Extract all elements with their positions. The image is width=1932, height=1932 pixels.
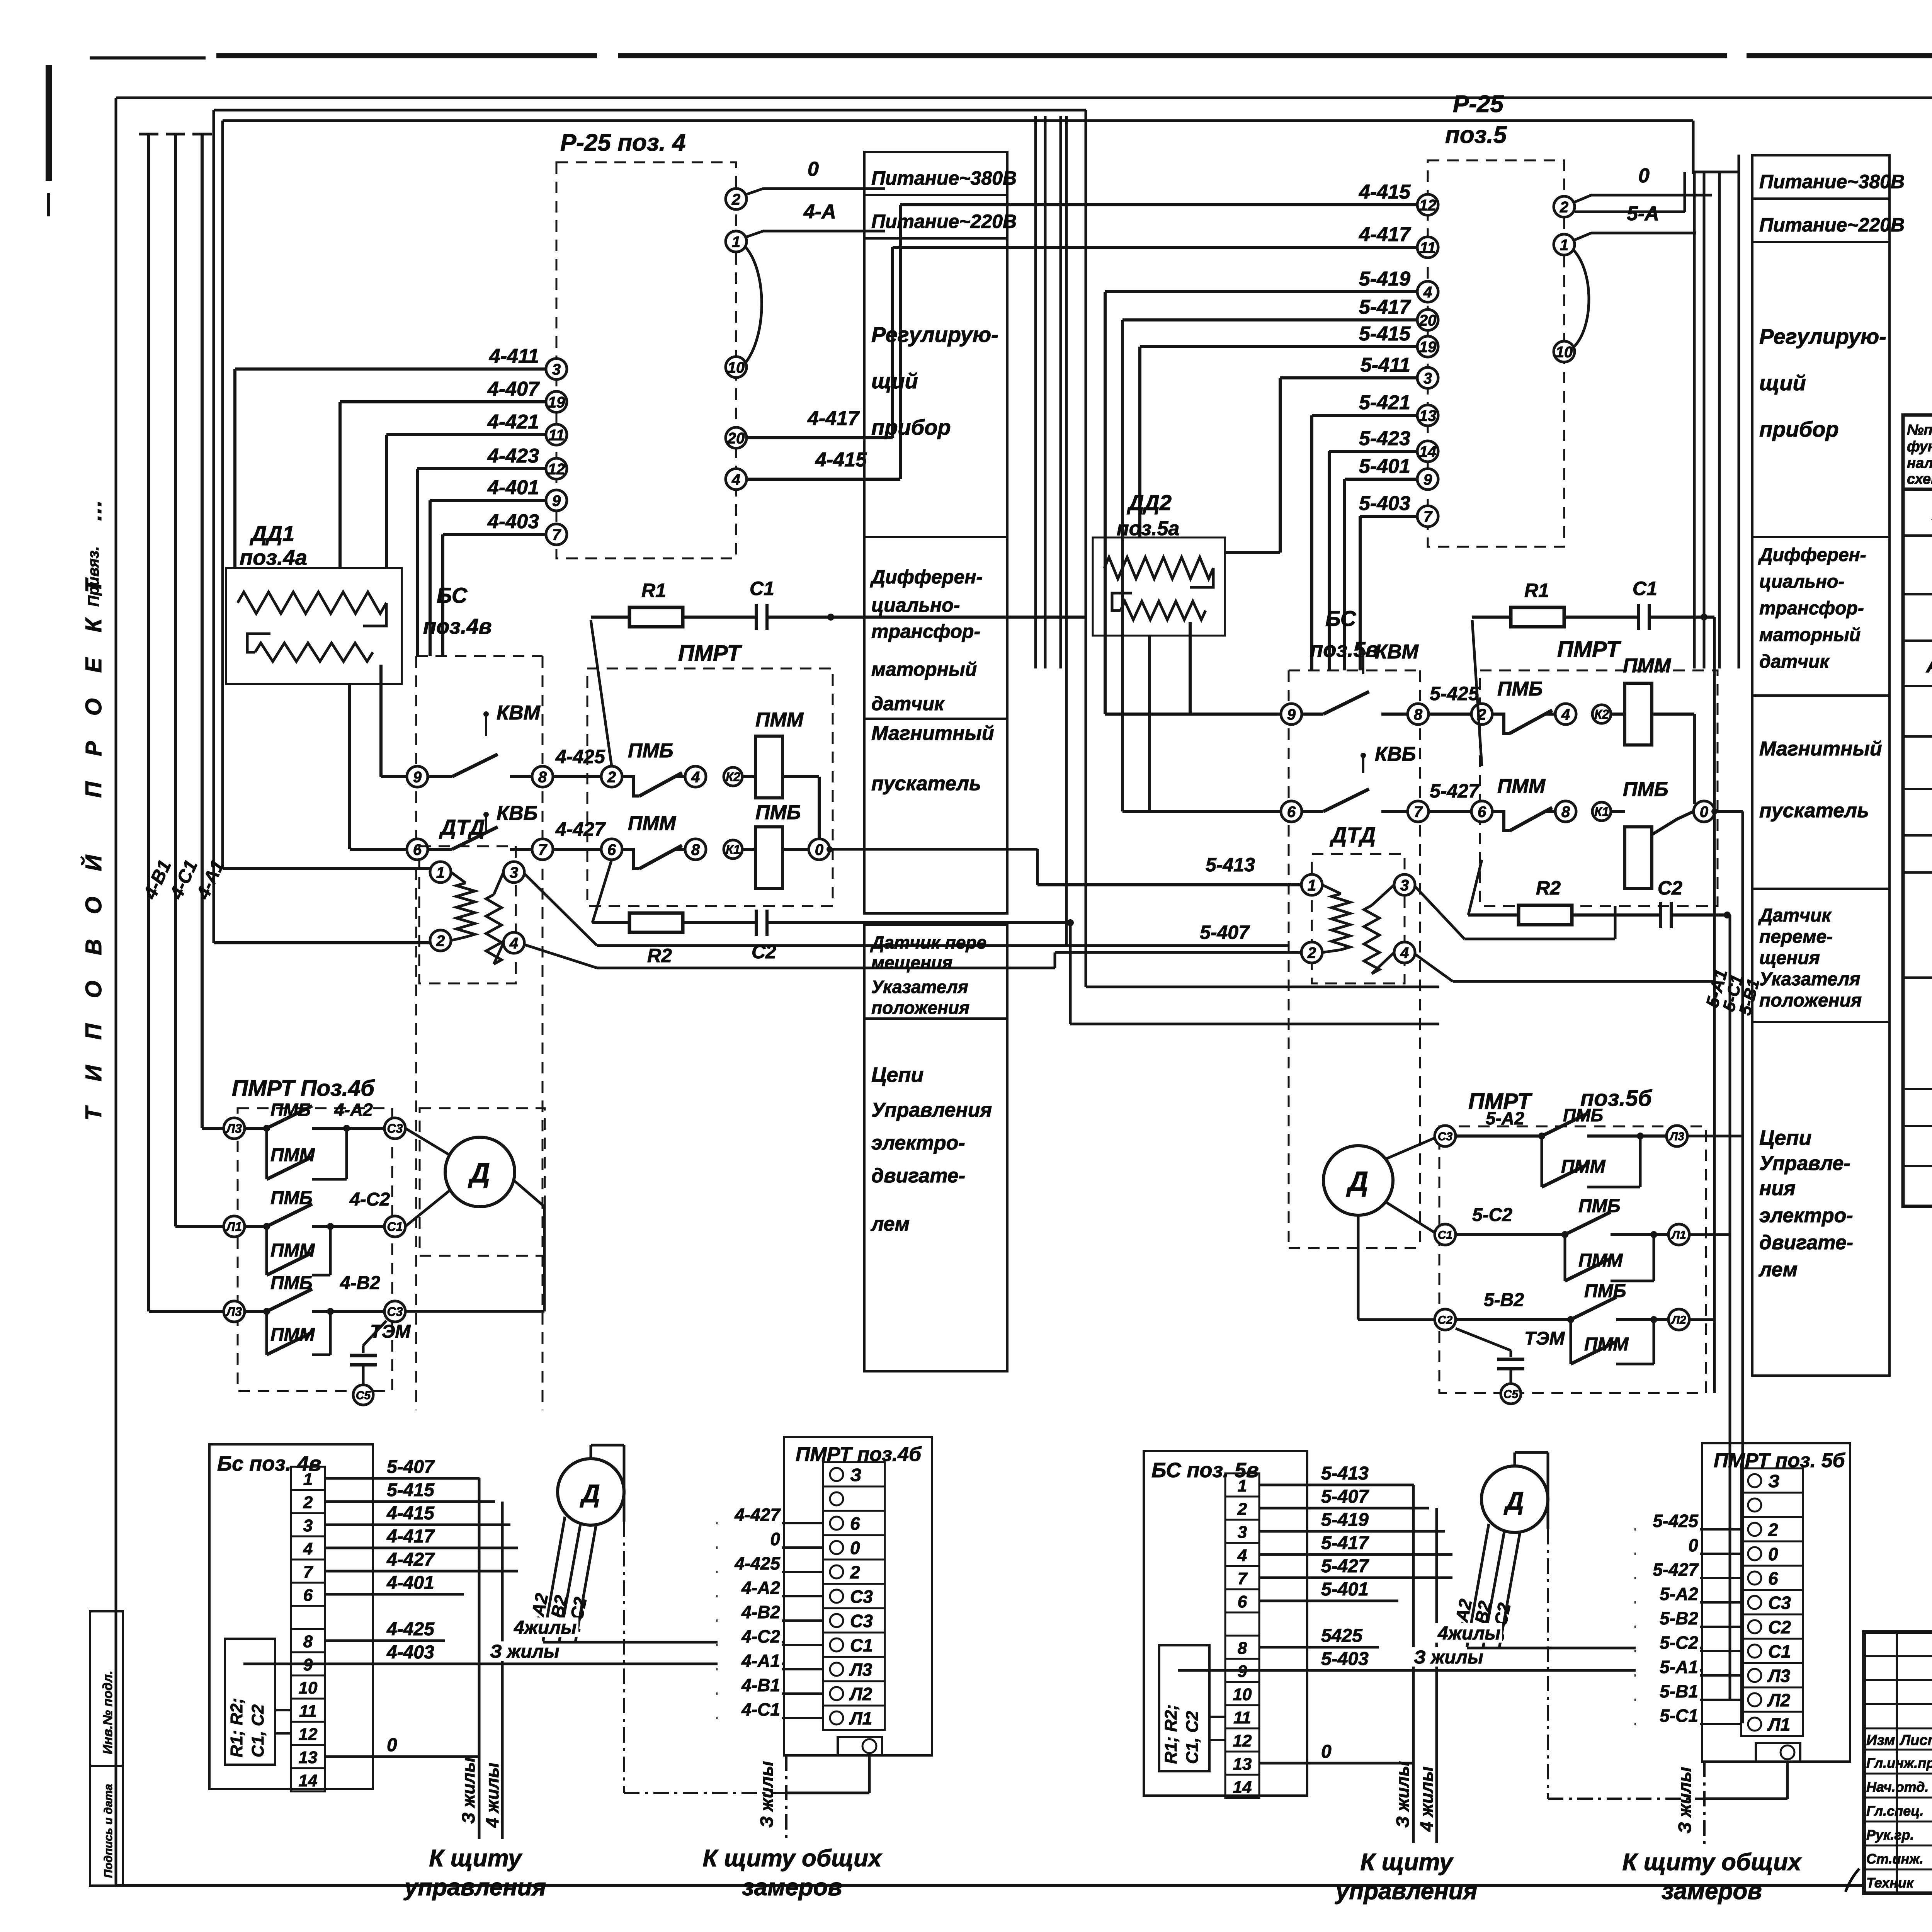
label 4zhily ch5 [1435, 1623, 1502, 1643]
pin 1 DTD ch5 [1301, 874, 1322, 895]
svg-text:З жилы: З жилы [490, 1641, 560, 1662]
strip PMRT-5b left wire labels [1634, 1528, 1741, 1531]
svg-text:5-401: 5-401 [1359, 455, 1410, 478]
resistive element DD2 lower [1121, 601, 1206, 620]
svg-text:2: 2 [436, 932, 445, 949]
svg-text:4-417: 4-417 [386, 1526, 435, 1547]
brake TEM ch4 [363, 1321, 386, 1345]
wire L2 to bus [1689, 1318, 1714, 1321]
svg-text:5-413: 5-413 [1206, 854, 1255, 876]
svg-text:ДД2: ДД2 [1127, 490, 1172, 515]
svg-text:4: 4 [303, 1539, 313, 1558]
pin 6 BS-5 [1281, 801, 1302, 822]
title block grid left [1896, 1632, 1898, 1893]
strip PMRT-5b tail wire [1786, 1762, 1789, 1799]
node С1 row2 ch4 [384, 1216, 405, 1237]
svg-text:Указателя: Указателя [1759, 969, 1861, 990]
wire bus corner B to ch5 [1692, 121, 1695, 174]
contact KVB blade ch5 [1323, 789, 1369, 811]
contact PMB row2 ch5 [1565, 1212, 1611, 1235]
svg-text:ПММ: ПММ [755, 709, 804, 731]
svg-text:Питание~380В: Питание~380В [871, 167, 1017, 189]
svg-text:7: 7 [1238, 1569, 1248, 1588]
svg-text:Гл.спец.: Гл.спец. [1866, 1803, 1923, 1819]
svg-text:8: 8 [303, 1632, 313, 1651]
svg-text:К2: К2 [726, 770, 740, 784]
wire vertical x2770 [1069, 923, 1072, 1024]
contact KVM blade [452, 754, 498, 777]
labels column ch5 [1752, 155, 1889, 199]
wire 4-415 riser [899, 205, 902, 479]
coil terminal K2 ch5 [1592, 705, 1611, 723]
svg-text:датчик: датчик [1759, 651, 1830, 672]
dash-dot cable ch5 [1547, 1529, 1549, 1799]
wire 5-427 [1429, 810, 1471, 813]
svg-text:4-407: 4-407 [487, 378, 540, 400]
sensor DD2 pos.5a box [1093, 537, 1225, 636]
pin 4 DTD ch5 [1394, 942, 1415, 963]
svg-text:4-В2: 4-В2 [741, 1602, 780, 1622]
limit switch block BS pos.5v dashed box [1289, 670, 1420, 672]
limit switch KVM [483, 711, 489, 717]
svg-text:С3: С3 [850, 1611, 873, 1631]
svg-text:управления: управления [403, 1874, 546, 1901]
wire to 0 ch5 [1693, 714, 1696, 804]
wire pin4 run [597, 967, 1055, 969]
wire left vertical A (to DTD-4 pin 2) [213, 110, 215, 943]
svg-text:положения: положения [1759, 990, 1862, 1011]
regulator P-25 pos.4 dashed box [556, 162, 736, 558]
svg-text:4-С2: 4-С2 [349, 1189, 390, 1210]
svg-text:лем: лем [870, 1213, 910, 1235]
long wire 5-403 run [1178, 1669, 1702, 1672]
svg-text:Управле-: Управле- [1759, 1152, 1850, 1175]
svg-text:7: 7 [1423, 508, 1433, 525]
svg-text:4-423: 4-423 [487, 445, 539, 467]
svg-text:КВБ: КВБ [1375, 743, 1416, 765]
svg-text:5-417: 5-417 [1321, 1533, 1369, 1553]
svg-text:прибор: прибор [871, 415, 951, 439]
svg-text:3: 3 [1400, 877, 1409, 894]
svg-text:6: 6 [1768, 1568, 1778, 1588]
pin 1 of P-25 pos.4, wire 4-А [726, 231, 747, 252]
svg-text:4-427: 4-427 [386, 1549, 435, 1570]
node 0 PMRT ch5 [1694, 801, 1714, 822]
svg-text:ПМБ: ПМБ [1584, 1281, 1626, 1301]
wire bus vertical ch5 top c [1718, 172, 1721, 668]
svg-text:замеров: замеров [742, 1874, 842, 1901]
svg-text:R2: R2 [1536, 877, 1561, 899]
wire 4-B1 to L2 [149, 1310, 224, 1313]
svg-text:Привяз.: Привяз. [85, 546, 102, 607]
wire 5-411 [1280, 376, 1417, 379]
svg-text:ПММ: ПММ [1584, 1334, 1629, 1355]
pin 7 BS-5 [1408, 801, 1429, 822]
svg-text:5425: 5425 [1321, 1626, 1363, 1646]
wire 0-row extension [830, 848, 1037, 851]
svg-text:6: 6 [850, 1514, 860, 1534]
wire long vertical C1 net ch5 [1713, 617, 1716, 1393]
svg-text:Изм: Изм [1866, 1732, 1895, 1748]
svg-text:поз.4в: поз.4в [423, 614, 492, 638]
motor cable ch4 [543, 1517, 565, 1642]
svg-text:Указателя: Указателя [871, 977, 968, 997]
svg-text:4: 4 [509, 935, 518, 952]
svg-text:С1, С2: С1, С2 [248, 1704, 267, 1757]
svg-text:10: 10 [728, 359, 745, 376]
svg-text:Цепи: Цепи [871, 1063, 923, 1087]
strip PMRT-4b tail wire [868, 1755, 871, 1793]
wire C3 row3 to motor [405, 1310, 544, 1313]
svg-text:Питание~380В: Питание~380В [1759, 171, 1905, 192]
svg-text:5-С2: 5-С2 [1472, 1205, 1512, 1225]
wire 4-421 [386, 433, 546, 436]
svg-text:Лист: Лист [1899, 1732, 1932, 1748]
svg-text:Д: Д [468, 1158, 490, 1189]
wire 5-401 [1345, 478, 1417, 481]
pin 10 of P-25 pos.4 [726, 357, 747, 378]
resistive element DTD ch4 right [486, 895, 502, 964]
svg-text:4: 4 [691, 769, 700, 786]
node С1 ch5 [1435, 1224, 1456, 1245]
svg-text:5-411: 5-411 [1361, 354, 1410, 376]
pin 3 DTD [503, 862, 524, 883]
svg-text:4: 4 [1400, 944, 1409, 961]
node С3 row1 ch4 [384, 1118, 405, 1139]
pin 10 of P-25 pos.5 [1554, 341, 1575, 362]
wire diag pin6 to R2 [592, 860, 612, 923]
svg-text:пускатель: пускатель [871, 772, 981, 795]
svg-text:К2: К2 [1594, 707, 1609, 721]
svg-text:ПМБ: ПМБ [1578, 1196, 1621, 1216]
motor cable ch5 [1467, 1524, 1489, 1648]
svg-text:6: 6 [413, 841, 422, 858]
svg-text:1: 1 [1308, 877, 1316, 894]
pin 8 PMRT [685, 839, 706, 860]
resistive element DD2 upper [1104, 557, 1213, 579]
svg-text:С3: С3 [387, 1305, 403, 1319]
wire DTD pin4 out [525, 945, 597, 968]
wire bus vertical ch5 top a [1693, 172, 1696, 668]
node С5 ch5 [1501, 1384, 1521, 1404]
svg-text:R2: R2 [647, 945, 672, 966]
wire 5-417 [1122, 318, 1417, 321]
svg-text:ПМБ: ПМБ [1623, 778, 1668, 801]
limit switch KVM ch5 [1361, 650, 1366, 656]
strip BS-4v R C box wires [275, 1663, 291, 1665]
svg-text:С1: С1 [750, 578, 774, 599]
wire 4-423 [417, 467, 546, 470]
motor enclosure dashed box ch4 [420, 1108, 545, 1256]
svg-text:5-В1: 5-В1 [1660, 1681, 1698, 1701]
svg-text:2: 2 [303, 1493, 313, 1512]
svg-text:трансфор-: трансфор- [871, 621, 980, 642]
pin 4 PMRT [685, 766, 706, 787]
svg-text:4-425: 4-425 [734, 1553, 781, 1573]
wire 4-A1 to L3 [202, 1127, 224, 1130]
wire DD1 tail to BS (6) [348, 684, 351, 849]
svg-text:Магнитный: Магнитный [1759, 738, 1882, 760]
svg-text:ПММ: ПММ [1561, 1156, 1606, 1177]
svg-text:ПМБ: ПМБ [270, 1273, 313, 1293]
svg-text:3: 3 [510, 864, 518, 881]
svg-text:ДТД: ДТД [439, 815, 485, 839]
svg-text:0: 0 [1700, 803, 1708, 820]
svg-text:С3: С3 [1438, 1130, 1453, 1143]
pin 8 BS-5 [1408, 704, 1429, 724]
wire arc pin1 to pin10 [746, 247, 762, 362]
svg-text:ПМБ: ПМБ [1497, 678, 1543, 700]
node Л2 row3 [224, 1301, 245, 1322]
svg-text:двигате-: двигате- [1759, 1231, 1853, 1254]
svg-text:6: 6 [303, 1586, 313, 1605]
bus 4-C1 vertical [174, 134, 177, 1226]
svg-text:0: 0 [1638, 165, 1650, 187]
pin 4 DTD [503, 932, 524, 953]
svg-text:Л3: Л3 [849, 1660, 872, 1680]
regulator P-25 pos.5 dashed box [1428, 160, 1564, 547]
svg-text:С1: С1 [387, 1220, 403, 1234]
svg-text:Л2: Л2 [849, 1684, 872, 1704]
svg-text:4-С2: 4-С2 [741, 1626, 780, 1646]
wire 4-401 [430, 499, 546, 502]
strip BS-4v outer box [209, 1444, 373, 1789]
svg-text:4 жилы: 4 жилы [482, 1763, 502, 1828]
wire 4-425 [553, 775, 601, 778]
wire vertical x2810 (C1 net ch4) [1085, 110, 1087, 987]
svg-text:5-407: 5-407 [1321, 1486, 1369, 1507]
svg-text:12: 12 [299, 1725, 318, 1744]
wire long vertical 0 net ch5 [1742, 811, 1744, 1723]
svg-text:Датчик пере: Датчик пере [870, 932, 986, 952]
svg-text:ПМРТ Поз.4б: ПМРТ Поз.4б [232, 1076, 375, 1101]
wire motor top right ch4 [590, 1445, 592, 1459]
svg-text:11: 11 [1233, 1708, 1251, 1727]
svg-text:4-401: 4-401 [386, 1573, 434, 1593]
wire bundle verticals ch5 [1412, 1485, 1415, 1843]
svg-text:ПММ: ПММ [270, 1145, 315, 1165]
wire to 0 [818, 777, 821, 839]
contact PMB row3 ch4 [267, 1289, 312, 1311]
svg-text:переме-: переме- [1759, 927, 1833, 947]
coil terminal K1 [724, 840, 742, 859]
svg-text:4-427: 4-427 [734, 1505, 781, 1525]
pin 3 DTD ch5 [1394, 874, 1415, 895]
svg-text:5-407: 5-407 [1200, 922, 1250, 943]
pin 7 BS [532, 839, 553, 860]
svg-text:З жилы: З жилы [458, 1757, 478, 1824]
pin 9 BS [407, 766, 428, 787]
wire DTD pin3 out [525, 874, 597, 946]
junction dot C2 ch5 [1724, 912, 1731, 918]
svg-text:9: 9 [1423, 471, 1432, 488]
resistor R2 ch4 [592, 921, 629, 924]
svg-text:З жилы: З жилы [1393, 1761, 1413, 1828]
svg-text:5-407: 5-407 [387, 1457, 435, 1477]
handwritten slash mark [1845, 1869, 1859, 1892]
wire row1 ch5 [1456, 1134, 1542, 1138]
svg-text:К1: К1 [1594, 805, 1609, 819]
wire 5-425 [1429, 713, 1471, 716]
svg-text:замеров: замеров [1662, 1878, 1762, 1905]
svg-text:Л2: Л2 [1767, 1690, 1791, 1710]
wire 5-419 [1105, 290, 1417, 293]
svg-text:7: 7 [552, 526, 561, 543]
svg-text:электро-: электро- [1759, 1204, 1853, 1227]
capacitor C2 ch4 [755, 910, 758, 936]
svg-text:9: 9 [552, 492, 561, 509]
contact PMM branch row1 ch4 [265, 1128, 268, 1179]
svg-text:С2: С2 [752, 941, 776, 963]
contact PMB row2 ch4 [267, 1204, 312, 1226]
contact PMM branch row3 ch5 [1570, 1320, 1572, 1364]
node С3 row3 ch4 [384, 1301, 405, 1322]
wire riser to DTD-5 [1036, 849, 1039, 885]
pin 2 of P-25 pos.4, wire 0 [726, 189, 747, 209]
svg-text:10: 10 [299, 1679, 318, 1697]
svg-text:5-В2: 5-В2 [1484, 1290, 1524, 1310]
wire bundle verticals ch4 [478, 1478, 481, 1839]
svg-text:Питание~220В: Питание~220В [871, 211, 1017, 232]
wire 5-421 [1312, 414, 1417, 417]
wire L3 to bus [1687, 1135, 1743, 1138]
svg-text:Аппаратура: Аппаратура [1925, 654, 1932, 677]
pin 8 PMRT ch5 [1555, 801, 1576, 822]
wire C3 to motor [405, 1128, 450, 1155]
contact PMM branch row1 ch5 [1541, 1136, 1543, 1187]
displacement sensor DTD ch4 dashed box [419, 846, 516, 983]
svg-text:5-А: 5-А [1627, 202, 1659, 225]
svg-text:Магнитный: Магнитный [871, 722, 994, 745]
svg-text:6: 6 [1238, 1592, 1247, 1611]
svg-text:7: 7 [303, 1563, 314, 1582]
svg-text:З жилы: З жилы [757, 1761, 777, 1828]
svg-text:С2: С2 [1438, 1314, 1453, 1327]
strip PMRT-4b bottom lug [838, 1737, 882, 1755]
resistive element DTD ch5 left [1332, 894, 1350, 950]
wire pin3 run ch5 [1464, 938, 1615, 940]
svg-text:5-423: 5-423 [1359, 427, 1410, 450]
svg-text:0: 0 [815, 841, 823, 858]
wire 4-407 [340, 400, 546, 403]
svg-text:R1; R2;: R1; R2; [1162, 1704, 1180, 1764]
svg-text:8: 8 [538, 769, 547, 786]
svg-text:4-С1: 4-С1 [741, 1699, 780, 1719]
strip PMRT-5b outer box [1702, 1443, 1850, 1762]
svg-text:14: 14 [1419, 443, 1437, 460]
resistive element DD1 lower [255, 643, 373, 662]
bottom-left stamp column [90, 1611, 123, 1886]
svg-text:2: 2 [607, 769, 616, 786]
svg-text:ПМБ: ПМБ [270, 1100, 311, 1120]
svg-text:Л1: Л1 [1671, 1229, 1686, 1242]
svg-text:Р-25 поз. 4: Р-25 поз. 4 [560, 129, 686, 156]
svg-text:5-А1: 5-А1 [1660, 1657, 1698, 1677]
svg-text:0: 0 [770, 1529, 780, 1549]
cable run to strip ch4 [543, 1641, 784, 1644]
strip PMRT-4b left wire labels [716, 1522, 823, 1524]
svg-text:К щиту: К щиту [1360, 1849, 1454, 1876]
svg-text:5-425: 5-425 [1430, 683, 1480, 704]
svg-text:ПМБ: ПМБ [270, 1188, 313, 1208]
equipment table grid [1903, 415, 1932, 1206]
strip PMRT-5b terminal rows [1741, 1468, 1803, 1493]
svg-text:маторный: маторный [1759, 625, 1861, 645]
resistor R2 ch5 [1468, 913, 1519, 917]
svg-text:5-421: 5-421 [1359, 391, 1410, 414]
svg-text:5-413: 5-413 [1321, 1463, 1369, 1484]
node 0 PMRT ch4 [809, 839, 830, 860]
svg-text:Дифферен-: Дифферен- [870, 566, 983, 588]
svg-text:4: 4 [731, 471, 740, 488]
svg-text:поз.5в: поз.5в [1310, 637, 1379, 662]
title block outer box [1864, 1632, 1932, 1893]
svg-text:щий: щий [1759, 371, 1806, 395]
wire 4-417 run to P-25 pos.5 [893, 246, 1425, 249]
strip BS-4v wires [325, 1477, 480, 1480]
bus 4-B1 vertical [147, 134, 150, 1311]
svg-text:С1: С1 [1768, 1641, 1791, 1662]
wire pin2 lower run [1575, 211, 1685, 213]
svg-text:R1; R2;: R1; R2; [227, 1698, 246, 1757]
svg-text:10: 10 [1556, 344, 1573, 361]
wire DD2 tail to BS-5 (9) [1189, 622, 1192, 714]
svg-text:Дифферен-: Дифферен- [1758, 545, 1866, 565]
svg-text:Л3: Л3 [1669, 1130, 1684, 1143]
wire 5-423 [1329, 450, 1417, 453]
svg-text:4-425: 4-425 [386, 1619, 435, 1639]
svg-text:К1: К1 [726, 843, 740, 857]
svg-text:ПММ: ПММ [1623, 655, 1672, 677]
svg-text:19: 19 [1419, 338, 1437, 355]
svg-text:ПММ: ПММ [628, 812, 677, 835]
capacitor C2 ch5 [1659, 902, 1662, 928]
label 4zhily ch4 [511, 1617, 578, 1637]
svg-text:13: 13 [1233, 1755, 1252, 1774]
svg-text:6: 6 [1478, 803, 1486, 820]
wire feed DTD pin2 [214, 941, 430, 944]
svg-text:7: 7 [538, 841, 548, 858]
svg-text:4-415: 4-415 [1359, 181, 1411, 203]
wire motor to C3 [1385, 1138, 1435, 1159]
strip PMRT-5b bottom lug [1756, 1743, 1800, 1762]
svg-text:Регулирую-: Регулирую- [1759, 324, 1886, 349]
svg-text:4жилы: 4жилы [1437, 1623, 1500, 1644]
svg-text:5-427: 5-427 [1321, 1556, 1369, 1577]
svg-text:2: 2 [1307, 944, 1316, 961]
svg-text:ДТД: ДТД [1330, 823, 1376, 847]
svg-text:К щиту: К щиту [429, 1845, 523, 1872]
svg-text:ПМБ: ПМБ [755, 801, 801, 824]
svg-text:К щиту общих: К щиту общих [1622, 1849, 1802, 1876]
node Л2 ch5 [1668, 1309, 1689, 1330]
contact KVB blade [452, 827, 498, 849]
svg-text:9: 9 [1287, 706, 1296, 723]
svg-text:5-427: 5-427 [1430, 780, 1480, 802]
wire row2 ch5 [1456, 1233, 1565, 1236]
svg-text:ТЭМ: ТЭМ [370, 1321, 411, 1342]
resistive element DTD ch5 right [1364, 905, 1379, 974]
motor D ch5 bottom [1481, 1466, 1548, 1532]
svg-text:лем: лем [1758, 1259, 1798, 1281]
svg-text:8: 8 [1414, 706, 1423, 723]
wire 4-403 [443, 533, 546, 536]
svg-text:8: 8 [1238, 1639, 1247, 1658]
svg-text:Л1: Л1 [1767, 1714, 1790, 1735]
svg-text:3: 3 [552, 361, 561, 378]
svg-text:Л1: Л1 [849, 1708, 872, 1728]
contact PMM branch row3 ch4 [265, 1311, 268, 1355]
